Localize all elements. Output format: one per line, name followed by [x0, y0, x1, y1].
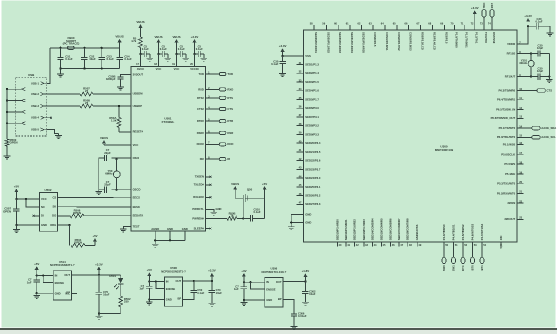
- svg-text:6MHz: 6MHz: [105, 171, 113, 175]
- svg-text:VBUS: VBUS: [115, 35, 123, 39]
- svg-text:0.1uF: 0.1uF: [124, 57, 132, 61]
- svg-text:0.1uF: 0.1uF: [197, 291, 204, 295]
- svg-text:RTS#: RTS#: [197, 96, 204, 100]
- svg-text:0.1uF: 0.1uF: [160, 47, 167, 51]
- svg-text:AGND: AGND: [151, 227, 159, 231]
- svg-text:0.1uF: 0.1uF: [254, 210, 261, 214]
- svg-text:+3.3V: +3.3V: [471, 6, 479, 10]
- svg-text:RST: RST: [490, 3, 494, 9]
- svg-text:0.1uF: 0.1uF: [178, 47, 185, 51]
- svg-text:TXDEN: TXDEN: [195, 175, 204, 179]
- svg-text:SED24/P3.0: SED24/P3.0: [305, 176, 321, 180]
- svg-text:0.1uF: 0.1uF: [142, 47, 149, 51]
- svg-text:VCC: VCC: [133, 143, 139, 147]
- svg-text:TXD: TXD: [199, 72, 204, 76]
- svg-text:COM1/P2.6/S1: COM1/P2.6/S1: [385, 32, 389, 51]
- svg-text:ENOSE: ENOSE: [55, 281, 65, 285]
- svg-text:ORG: ORG: [50, 223, 56, 227]
- svg-text:OPEN: OPEN: [74, 240, 82, 244]
- svg-text:P4.5/TB2/S2: P4.5/TB2/S2: [461, 224, 465, 240]
- svg-text:10uF: 10uF: [309, 292, 316, 296]
- svg-text:GND: GND: [166, 298, 172, 302]
- svg-text:5_0: 5_0: [499, 244, 503, 249]
- svg-text:GND: GND: [55, 291, 61, 295]
- svg-text:+5V: +5V: [14, 184, 19, 188]
- svg-text:RI: RI: [227, 157, 230, 161]
- svg-text:P1.1/TA0/U1: P1.1/TA0/U1: [465, 32, 469, 48]
- svg-text:SED21/P3.5: SED21/P3.5: [305, 150, 321, 154]
- svg-text:NCP5501SN33T1-?: NCP5501SN33T1-?: [50, 263, 75, 267]
- svg-text:+3V: +3V: [241, 269, 246, 273]
- svg-text:GND: GND: [216, 207, 222, 211]
- svg-text:P4.3/TB0/S0: P4.3/TB0/S0: [442, 224, 446, 240]
- svg-text:0.1uF: 0.1uF: [535, 19, 542, 23]
- svg-text:CS: CS: [52, 195, 56, 199]
- svg-text:VDDI0: VDDI0: [507, 42, 516, 46]
- svg-text:ENOSE: ENOSE: [266, 288, 276, 292]
- svg-text:3V3OUT: 3V3OUT: [133, 72, 144, 76]
- svg-text:SED14/COM3/R4: SED14/COM3/R4: [370, 218, 374, 240]
- svg-text:SED31/P2.3/R34: SED31/P2.3/R34: [350, 32, 354, 53]
- svg-text:PWRCTL: PWRCTL: [192, 207, 204, 211]
- svg-text:VCC: VCC: [156, 67, 162, 71]
- svg-text:+3.3V: +3.3V: [524, 14, 532, 18]
- svg-text:IN: IN: [55, 273, 58, 277]
- svg-text:COM3/P2.8/S3: COM3/P2.8/S3: [409, 32, 413, 51]
- svg-text:+5V: +5V: [34, 262, 39, 266]
- svg-text:COM2/P2.7/S2: COM2/P2.7/S2: [397, 32, 401, 51]
- svg-text:SED26/P3.2: SED26/P3.2: [305, 194, 321, 198]
- svg-text:SED6/P3.0: SED6/P3.0: [305, 106, 319, 110]
- svg-text:EECS: EECS: [133, 196, 141, 200]
- svg-text:DTR#: DTR#: [197, 119, 205, 123]
- svg-text:P5.1/WS0: P5.1/WS0: [503, 143, 516, 147]
- svg-text:VBUS: VBUS: [172, 35, 180, 39]
- svg-text:OPEN: OPEN: [10, 141, 18, 145]
- svg-text:USB-3: USB-3: [31, 104, 40, 108]
- svg-text:SED32/P2.4/R35: SED32/P2.4/R35: [362, 32, 366, 53]
- svg-text:(PC TRACE): (PC TRACE): [63, 41, 80, 45]
- svg-text:+3.3V: +3.3V: [279, 44, 287, 48]
- svg-text:TXLED#: TXLED#: [194, 183, 205, 187]
- svg-text:TDO: TDO: [482, 3, 486, 9]
- svg-text:RF10S: RF10S: [507, 51, 516, 55]
- svg-text:P4.6/WT0/S3: P4.6/WT0/S3: [471, 223, 475, 240]
- svg-text:USBDM: USBDM: [133, 92, 144, 96]
- svg-text:SK: SK: [52, 205, 56, 209]
- svg-text:SED4/P1.6: SED4/P1.6: [305, 89, 319, 93]
- svg-text:NC: NC: [41, 205, 45, 209]
- svg-text:BP: BP: [278, 297, 282, 301]
- svg-text:P5.5/WS: P5.5/WS: [504, 162, 515, 166]
- svg-text:RESET#: RESET#: [133, 130, 144, 134]
- svg-text:R23/P2.5: R23/P2.5: [444, 32, 448, 44]
- svg-text:BT0: BT0: [470, 265, 474, 271]
- svg-text:TEST: TEST: [133, 224, 140, 228]
- svg-text:P6.5/T3/SW_IN: P6.5/T3/SW_IN: [496, 107, 515, 111]
- svg-text:FT232BL: FT232BL: [162, 120, 175, 124]
- svg-text:SED29/P2.1/R32: SED29/P2.1/R32: [326, 32, 330, 53]
- svg-text:VBUS: VBUS: [136, 20, 144, 24]
- svg-text:PWREN#: PWREN#: [192, 216, 204, 220]
- svg-text:VBUS: VBUS: [231, 182, 239, 186]
- svg-text:VBUS: VBUS: [154, 35, 162, 39]
- svg-text:TXD: TXD: [227, 72, 233, 76]
- svg-text:0.1uF: 0.1uF: [271, 62, 279, 66]
- svg-text:DO: DO: [52, 214, 56, 218]
- svg-text:0.1uF: 0.1uF: [107, 57, 115, 61]
- svg-text:USB-5: USB-5: [31, 128, 40, 132]
- svg-text:D501: D501: [109, 274, 116, 278]
- svg-text:GND: GND: [266, 298, 272, 302]
- svg-text:32kHz: 32kHz: [519, 61, 527, 65]
- svg-text:SED17/COM6/R7: SED17/COM6/R7: [397, 218, 401, 240]
- svg-text:OPEN: OPEN: [73, 211, 81, 215]
- svg-text:+3.3V: +3.3V: [191, 35, 199, 39]
- svg-text:P6.0/TBL/WT0: P6.0/TBL/WT0: [497, 135, 516, 139]
- svg-text:U502: U502: [45, 188, 52, 192]
- svg-text:SED5/P1.7: SED5/P1.7: [305, 97, 319, 101]
- svg-text:N.C: N.C: [65, 291, 70, 295]
- svg-text:U514: U514: [59, 260, 66, 264]
- svg-text:SED20/P3.4: SED20/P3.4: [305, 141, 321, 145]
- svg-text:ENOSE: ENOSE: [166, 287, 176, 291]
- svg-text:BP: BP: [177, 297, 181, 301]
- svg-text:+3.3V: +3.3V: [208, 269, 216, 273]
- svg-text:SED12/P3.6/R22: SED12/P3.6/R22: [353, 219, 357, 240]
- svg-text:SW1: SW1: [451, 265, 455, 271]
- svg-text:NCP5661TCLX18-?: NCP5661TCLX18-?: [262, 270, 287, 274]
- svg-text:MSP430F449: MSP430F449: [435, 148, 454, 152]
- svg-text:+5V: +5V: [262, 182, 267, 186]
- svg-text:GND: GND: [305, 212, 311, 216]
- svg-text:4.7k: 4.7k: [131, 39, 137, 43]
- svg-text:P6.4/TD0/MR1: P6.4/TD0/MR1: [497, 98, 516, 102]
- svg-text:SED30/P2.2/R33: SED30/P2.2/R33: [338, 32, 342, 53]
- svg-text:VBUS: VBUS: [100, 136, 108, 140]
- svg-text:RTC: RTC: [461, 265, 465, 271]
- svg-text:VCC: VCC: [41, 197, 47, 201]
- svg-text:SED1/P1.3: SED1/P1.3: [305, 62, 319, 66]
- svg-text:OSCI: OSCI: [133, 156, 140, 160]
- svg-text:AAXE_SDA: AAXE_SDA: [541, 126, 556, 130]
- svg-text:AAXE_SCL: AAXE_SCL: [541, 135, 556, 139]
- svg-text:10uF: 10uF: [89, 57, 96, 61]
- svg-text:12pF: 12pF: [537, 46, 544, 50]
- svg-text:SLEEP#: SLEEP#: [194, 227, 205, 231]
- svg-text:GND: GND: [167, 227, 173, 231]
- svg-text:+3.3V: +3.3V: [95, 262, 103, 266]
- svg-text:RI#: RI#: [200, 157, 205, 161]
- svg-text:DCD: DCD: [227, 142, 233, 146]
- svg-text:NCP5501SN33T1-?: NCP5501SN33T1-?: [161, 269, 186, 273]
- svg-text:R13/P2.4/LCD: R13/P2.4/LCD: [432, 32, 436, 50]
- svg-text:COM0/P2.5: COM0/P2.5: [373, 32, 377, 47]
- svg-text:SED16/COM5/R6: SED16/COM5/R6: [389, 218, 393, 240]
- svg-text:RF10UT: RF10UT: [505, 75, 516, 79]
- svg-text:P6.1/TX/WT0: P6.1/TX/WT0: [499, 126, 516, 130]
- svg-text:27: 27: [85, 89, 89, 93]
- svg-text:TDO/TDI: TDO/TDI: [484, 32, 488, 43]
- svg-text:CTS#: CTS#: [197, 107, 204, 111]
- svg-text:SED13/P3.7/R23: SED13/P3.7/R23: [362, 219, 366, 240]
- svg-text:CTS: CTS: [547, 88, 553, 92]
- svg-text:P5.4/EE: P5.4/EE: [505, 172, 515, 176]
- svg-text:P6.3/TB/MR0: P6.3/TB/MR0: [499, 88, 516, 92]
- svg-text:VCCIO: VCCIO: [190, 67, 199, 71]
- svg-text:GND: GND: [41, 223, 47, 227]
- svg-text:RXLED#: RXLED#: [193, 195, 204, 199]
- svg-text:OUT: OUT: [276, 280, 282, 284]
- svg-text:SED3/P1.5: SED3/P1.5: [305, 80, 319, 84]
- svg-text:P1.0/TA0/U0: P1.0/TA0/U0: [455, 32, 459, 48]
- svg-text:SED2/P1.4: SED2/P1.4: [305, 71, 319, 75]
- svg-text:AVCC: AVCC: [137, 67, 144, 71]
- svg-text:BT1: BT1: [480, 265, 484, 271]
- svg-text:IN: IN: [166, 280, 169, 284]
- svg-text:SED11/P3.5/R21: SED11/P3.5/R21: [344, 219, 348, 240]
- svg-text:27: 27: [85, 101, 89, 105]
- svg-text:SW0: SW0: [442, 265, 446, 271]
- svg-text:XIN: XIN: [499, 236, 503, 241]
- svg-text:1uF: 1uF: [234, 287, 239, 291]
- svg-text:12pF: 12pF: [537, 69, 544, 73]
- svg-text:10uF: 10uF: [103, 293, 110, 297]
- svg-text:USB-4: USB-4: [31, 116, 40, 120]
- svg-text:P1.2/TA1: P1.2/TA1: [475, 32, 479, 44]
- svg-text:1uF: 1uF: [27, 280, 32, 284]
- svg-text:+5V: +5V: [92, 234, 97, 238]
- svg-text:RXD: RXD: [227, 87, 233, 91]
- svg-text:SED25/P3.1: SED25/P3.1: [305, 185, 321, 189]
- svg-text:EEDATA: EEDATA: [133, 214, 144, 218]
- svg-text:EESK: EESK: [133, 205, 140, 209]
- svg-text:U306: U306: [271, 267, 278, 271]
- svg-text:3300pF: 3300pF: [106, 77, 116, 81]
- svg-text:+5V: +5V: [147, 268, 152, 272]
- svg-text:USB-1: USB-1: [31, 81, 40, 85]
- svg-text:OUT: OUT: [176, 279, 182, 283]
- svg-text:CTS: CTS: [227, 107, 233, 111]
- svg-text:P4.7/WT1/S4: P4.7/WT1/S4: [480, 223, 484, 240]
- svg-text:10uF: 10uF: [216, 291, 223, 295]
- svg-text:SED22/P3.6: SED22/P3.6: [305, 159, 321, 163]
- svg-text:SED8/P3.2: SED8/P3.2: [305, 124, 319, 128]
- svg-text:0.1uF: 0.1uF: [65, 57, 73, 61]
- svg-text:+1.8V: +1.8V: [302, 269, 310, 273]
- svg-text:32KOUT: 32KOUT: [504, 217, 515, 221]
- svg-text:DCD#: DCD#: [197, 142, 205, 146]
- svg-text:P5.3/TX1/WT0: P5.3/TX1/WT0: [497, 182, 516, 186]
- svg-text:P5.2/RX0/WT0: P5.2/RX0/WT0: [497, 191, 516, 195]
- svg-text:1k: 1k: [231, 214, 234, 218]
- svg-text:1.5k: 1.5k: [111, 119, 117, 123]
- svg-text:DTR: DTR: [227, 119, 233, 123]
- svg-text:USBDP: USBDP: [133, 104, 143, 108]
- svg-text:P5.6/SCLK: P5.6/SCLK: [501, 153, 515, 157]
- svg-text:GND: GND: [182, 227, 188, 231]
- svg-text:SED18/COM7/R8: SED18/COM7/R8: [406, 218, 410, 240]
- svg-text:SED23/P3.7: SED23/P3.7: [305, 167, 321, 171]
- svg-text:VSS: VSS: [305, 54, 311, 58]
- svg-text:OUT: OUT: [64, 273, 70, 277]
- svg-text:VCC: VCC: [174, 67, 180, 71]
- svg-text:USB-2: USB-2: [31, 92, 40, 96]
- svg-text:P4.4/TB1/S1: P4.4/TB1/S1: [452, 224, 456, 240]
- svg-text:0.1uF: 0.1uF: [196, 47, 203, 51]
- svg-text:IN: IN: [266, 280, 269, 284]
- svg-text:SED9/P3.3: SED9/P3.3: [305, 132, 319, 136]
- svg-text:SED10/P3.4/R20: SED10/P3.4/R20: [335, 219, 339, 240]
- svg-text:SED27/P3.3: SED27/P3.3: [305, 202, 321, 206]
- svg-text:0.01uF: 0.01uF: [298, 314, 307, 318]
- svg-text:U508: U508: [170, 266, 177, 270]
- svg-text:OSCO: OSCO: [133, 188, 141, 192]
- svg-text:1uF: 1uF: [139, 287, 144, 291]
- svg-text:OPEN: OPEN: [3, 209, 11, 213]
- svg-text:GND2/AVSS: GND2/AVSS: [415, 224, 419, 240]
- svg-text:SED15/COM4/R5: SED15/COM4/R5: [379, 218, 383, 240]
- svg-text:SED7/P3.1: SED7/P3.1: [305, 115, 319, 119]
- svg-text:DSR#: DSR#: [197, 131, 205, 135]
- svg-text:RTS: RTS: [227, 96, 233, 100]
- svg-text:R03/P2.3/LCD: R03/P2.3/LCD: [421, 32, 425, 50]
- svg-text:USB: USB: [28, 73, 35, 77]
- svg-text:DI: DI: [41, 214, 44, 218]
- svg-text:RST/NMI: RST/NMI: [492, 32, 496, 44]
- svg-text:RXD: RXD: [198, 87, 204, 91]
- svg-text:SED28/P2.0/R31: SED28/P2.0/R31: [314, 32, 318, 53]
- svg-text:DSR: DSR: [227, 131, 233, 135]
- svg-text:32KIN: 32KIN: [507, 201, 515, 205]
- svg-text:330: 330: [124, 300, 129, 304]
- svg-text:Q50: Q50: [247, 187, 253, 191]
- svg-text:22pF: 22pF: [104, 183, 111, 187]
- svg-text:22pF: 22pF: [104, 151, 111, 155]
- svg-text:P6.6/TDB/SW_OUT: P6.6/TDB/SW_OUT: [491, 116, 516, 120]
- svg-text:GND: GND: [305, 220, 311, 224]
